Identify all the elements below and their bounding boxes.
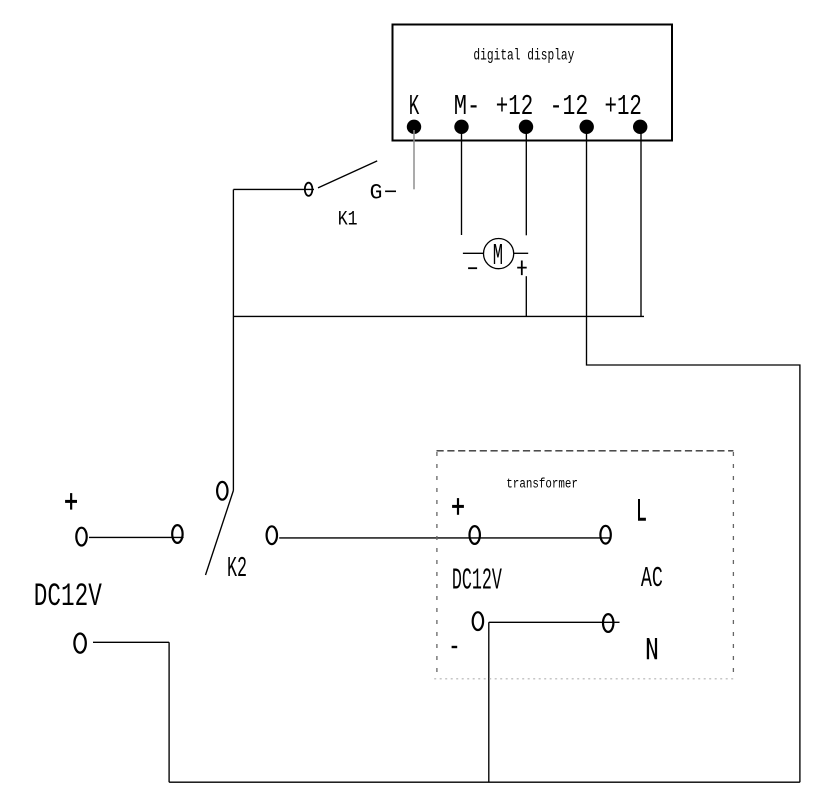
svg-text:G: G bbox=[370, 180, 383, 205]
svg-text:DC12V: DC12V bbox=[34, 578, 103, 615]
svg-text:K2: K2 bbox=[227, 552, 247, 585]
svg-text:AC: AC bbox=[641, 562, 663, 595]
svg-text:-12: -12 bbox=[550, 90, 589, 123]
svg-text:digital display: digital display bbox=[473, 47, 574, 65]
svg-text:M: M bbox=[493, 239, 503, 274]
svg-text:+12: +12 bbox=[605, 90, 642, 123]
svg-text:DC12V: DC12V bbox=[452, 564, 502, 599]
svg-text:K1: K1 bbox=[338, 209, 358, 232]
svg-text:transformer: transformer bbox=[506, 477, 578, 492]
svg-text:K: K bbox=[409, 90, 420, 123]
svg-text:+12: +12 bbox=[496, 90, 533, 123]
svg-text:M-: M- bbox=[454, 90, 480, 123]
